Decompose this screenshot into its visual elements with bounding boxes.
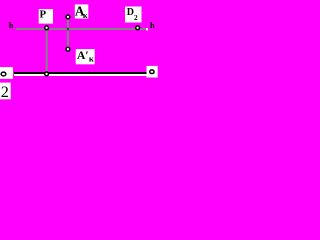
svg-text:h: h: [9, 21, 14, 30]
bottom beam white shadow line: [14, 74, 147, 76]
label box O left (fulcrum): [0, 67, 13, 79]
label box 2 (figure number): [0, 83, 11, 100]
node: joint on top beam below P: [45, 26, 49, 30]
svg-text:D: D: [127, 7, 134, 18]
label box O right (fulcrum): [147, 66, 158, 78]
label box A'_k: [76, 49, 95, 64]
background: [0, 0, 161, 106]
label o left (drawn ring): [1, 72, 6, 76]
label box D_2: [125, 7, 142, 23]
node A (top of A-A' link): [66, 15, 70, 19]
node: joint on bottom beam: [45, 72, 49, 76]
label o right (drawn ring): [150, 70, 154, 74]
node: joint on top beam below D2: [136, 26, 140, 30]
svg-text:P: P: [40, 9, 47, 21]
svg-text:2: 2: [134, 13, 138, 22]
wire: bottom horizontal black beam: [14, 72, 147, 74]
node A' (bottom of A-A' link): [66, 47, 70, 51]
svg-text:A′: A′: [77, 48, 89, 62]
svg-text:к: к: [89, 54, 94, 64]
svg-text:h: h: [150, 21, 155, 30]
wire: vertical link at x=46 (node B to node O1 line): [46, 28, 48, 74]
svg-text:к: к: [83, 11, 88, 20]
wire: top horizontal gray beam: [16, 28, 146, 30]
junction: crossing of A-A' link over top beam: [67, 28, 69, 31]
label box A_k: [75, 4, 89, 18]
label box P: [39, 9, 53, 24]
wire: vertical link at x=68 (A to A' line): [67, 17, 69, 49]
svg-text:2: 2: [1, 83, 9, 101]
top beam right white endpoint tip: [146, 28, 148, 30]
